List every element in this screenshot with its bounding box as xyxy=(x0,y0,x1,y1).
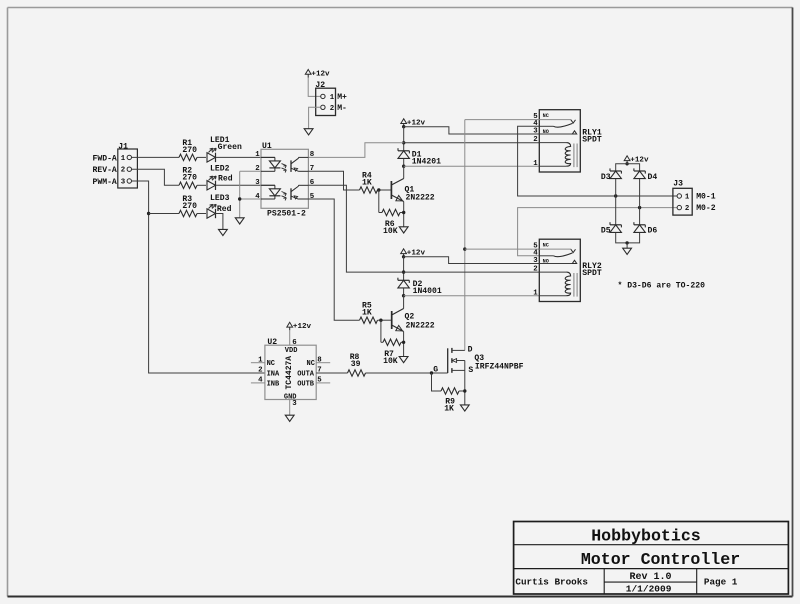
junction NC rail / RLY2 pin5 xyxy=(463,247,466,250)
svg-text:1/1/2009: 1/1/2009 xyxy=(626,584,672,595)
wire +12v to RLY2 pin3 NO xyxy=(404,257,540,264)
diode D5 xyxy=(610,224,621,226)
junction motor line2 / D4-D6 xyxy=(638,206,641,209)
svg-text:10K: 10K xyxy=(383,357,398,366)
U1 channel2 LED xyxy=(261,184,275,186)
wire motor line1 down to D5 xyxy=(615,196,617,225)
svg-text:7: 7 xyxy=(310,165,314,173)
ground J2 xyxy=(304,129,313,135)
svg-text:+12v: +12v xyxy=(311,70,330,78)
resistor R2 270 xyxy=(179,182,197,188)
svg-text:2: 2 xyxy=(533,266,537,274)
svg-text:J3: J3 xyxy=(673,180,683,189)
RLY2 coil xyxy=(539,271,566,273)
transistor Q2 2N2222 xyxy=(403,296,405,309)
connector J1 xyxy=(118,149,138,188)
svg-text:+12v: +12v xyxy=(293,323,312,331)
title block row line 1 xyxy=(514,544,789,546)
junction bridge ground xyxy=(625,241,628,244)
svg-text:4: 4 xyxy=(255,193,260,201)
wire to RLY2 pin5 xyxy=(465,248,540,250)
wire RLY2 pin4 common to motor line2 xyxy=(518,208,640,256)
svg-text:J2: J2 xyxy=(315,81,325,90)
junction +12v RLY2 xyxy=(402,255,405,258)
svg-text:3: 3 xyxy=(121,179,126,187)
power +12v D2/RLY2 xyxy=(401,249,407,254)
svg-text:LED3: LED3 xyxy=(210,194,230,203)
U1 channel2 phototransistor xyxy=(290,188,292,200)
svg-text:NC: NC xyxy=(543,243,549,249)
svg-text:39: 39 xyxy=(351,360,361,369)
svg-text:6: 6 xyxy=(310,179,315,187)
U1 channel1 coupling arrows xyxy=(282,164,287,166)
svg-text:TC4427A: TC4427A xyxy=(285,356,294,390)
svg-text:1K: 1K xyxy=(362,178,372,187)
connector J3 xyxy=(673,188,692,215)
power +12v J2 xyxy=(305,70,311,75)
ground Q1 emitter xyxy=(399,227,408,233)
ground Q2 emitter xyxy=(399,357,408,363)
wire +12v to RLY1 pin3 NO xyxy=(404,127,540,134)
wire J1 pin2 to R2 xyxy=(132,169,179,185)
junction Q1 emitter / R6 xyxy=(402,211,405,214)
wire R7 branch xyxy=(380,320,382,342)
svg-text:NO: NO xyxy=(543,258,549,264)
svg-text:OUTA: OUTA xyxy=(297,370,315,378)
wire R9 branch xyxy=(432,373,442,391)
svg-text:Motor Controller: Motor Controller xyxy=(581,550,740,569)
wire U1 pin5 to R5 xyxy=(308,199,359,320)
resistor R4 1K xyxy=(360,187,378,193)
svg-text:D6: D6 xyxy=(648,227,658,236)
svg-text:3: 3 xyxy=(255,179,260,187)
wire R8 to Q3 gate xyxy=(366,372,448,374)
U2 pin4 INB stub xyxy=(251,382,265,384)
wire D2 to collector node xyxy=(403,288,405,295)
junction bridge +12v xyxy=(625,162,628,165)
ground Q3 source xyxy=(460,405,469,411)
wire +12v to U2 VDD pin6 xyxy=(289,330,291,345)
wire U1 pin8 to +12v xyxy=(308,143,403,158)
svg-text:D5: D5 xyxy=(601,227,611,236)
LED3 Red xyxy=(207,209,216,218)
junction Q2 emitter / R7 xyxy=(402,341,405,344)
U1 channel2 coupling arrows xyxy=(282,192,287,194)
svg-text:FWD-A: FWD-A xyxy=(93,154,117,163)
wire J1 pin1 to R1 xyxy=(132,156,179,158)
relay RLY1 SPDT xyxy=(539,110,580,172)
svg-text:PS2501-2: PS2501-2 xyxy=(267,210,306,219)
wire U1 pin7 to R4 xyxy=(308,171,359,190)
svg-text:1K: 1K xyxy=(362,309,372,318)
wire R1 to LED1 xyxy=(197,156,206,158)
wire D1 to collector node xyxy=(403,159,405,166)
svg-text:10K: 10K xyxy=(383,227,398,236)
connector J2 xyxy=(316,88,336,115)
page border frame xyxy=(8,7,793,9)
ground U1 LED cathodes xyxy=(235,218,244,224)
svg-text:M0-1: M0-1 xyxy=(696,193,716,202)
svg-text:Green: Green xyxy=(218,143,242,152)
resistor R7 10K xyxy=(383,339,401,345)
wire U1 pin6 to +12v node xyxy=(308,185,403,272)
RLY1 common lever xyxy=(539,125,553,127)
svg-text:J1: J1 xyxy=(118,142,128,151)
resistor R6 10K xyxy=(382,209,400,215)
wire R5 to Q2 base xyxy=(378,319,392,321)
junction +12v / U1 pin6 / RLY2 coil xyxy=(402,270,405,273)
resistor R3 270 xyxy=(179,210,197,216)
svg-text:1N4001: 1N4001 xyxy=(413,287,442,296)
wire Q2 emitter down xyxy=(403,332,405,357)
U1 channel1 LED xyxy=(261,156,275,158)
wire D3 to motor line1 xyxy=(615,179,617,196)
wire U2 OUTA to R8 xyxy=(316,372,347,374)
svg-text:1: 1 xyxy=(330,94,335,102)
svg-text:M0-2: M0-2 xyxy=(696,204,716,213)
junction U1 pin4 gnd xyxy=(238,197,241,200)
svg-text:INB: INB xyxy=(267,380,280,388)
svg-text:NO: NO xyxy=(543,129,549,135)
svg-text:3: 3 xyxy=(533,257,538,265)
svg-text:* D3-D6 are TO-220: * D3-D6 are TO-220 xyxy=(618,281,706,290)
wire LED1 to U1 pin1 xyxy=(216,156,275,158)
diode D3 xyxy=(610,170,621,172)
svg-text:NC: NC xyxy=(307,360,315,368)
wire bridge top rail xyxy=(616,164,640,171)
U1 channel1 phototransistor xyxy=(290,160,292,172)
gate driver U2 TC4427A xyxy=(265,345,316,399)
svg-text:INA: INA xyxy=(267,370,280,378)
svg-text:1: 1 xyxy=(533,289,538,297)
svg-text:Page 1: Page 1 xyxy=(704,576,738,587)
power +12v D1/RLY1 xyxy=(401,119,407,124)
svg-text:S: S xyxy=(468,366,473,375)
svg-text:2: 2 xyxy=(533,136,537,144)
svg-text:VDD: VDD xyxy=(285,347,298,355)
svg-text:1: 1 xyxy=(533,160,538,168)
wire +12v down to D2 xyxy=(403,257,405,281)
diode D1 1N4201 xyxy=(398,150,409,152)
junction Q2 base / R7 xyxy=(379,319,382,322)
svg-text:Curtis Brooks: Curtis Brooks xyxy=(515,576,588,587)
ground LED3 xyxy=(219,229,228,235)
svg-text:1: 1 xyxy=(255,151,260,159)
ground bridge xyxy=(623,248,632,254)
wire +12v to J2 pin1 xyxy=(308,78,321,97)
wire D4 to motor line2 xyxy=(639,179,641,208)
svg-text:U2: U2 xyxy=(267,338,277,347)
svg-text:Red: Red xyxy=(218,174,233,183)
wire LED3 to ground xyxy=(216,214,223,230)
svg-text:D3: D3 xyxy=(601,173,611,182)
svg-text:G: G xyxy=(433,365,438,374)
U2 pin5 OUTB stub xyxy=(316,382,330,384)
wire +12v to RLY1 pin2 coil xyxy=(404,142,540,144)
svg-text:OUTB: OUTB xyxy=(297,380,315,388)
diode D6 xyxy=(634,224,645,226)
svg-text:LED2: LED2 xyxy=(210,165,230,174)
svg-text:270: 270 xyxy=(182,146,197,155)
svg-text:2: 2 xyxy=(258,367,262,375)
svg-text:1: 1 xyxy=(121,155,126,163)
title block divider right xyxy=(696,569,698,594)
wire R6 branch xyxy=(378,190,380,213)
svg-text:SPDT: SPDT xyxy=(582,269,602,278)
svg-text:PWM-A: PWM-A xyxy=(93,178,117,187)
junction D1 / RLY1 pin1 / Q1 collector xyxy=(402,165,405,168)
RLY1 coil xyxy=(539,142,566,144)
RLY2 NC contact xyxy=(539,248,571,250)
title block divider left xyxy=(603,569,605,594)
svg-text:3: 3 xyxy=(533,128,538,136)
junction +12v top xyxy=(402,125,405,128)
svg-text:2: 2 xyxy=(330,105,334,113)
resistor R9 1K xyxy=(441,388,459,394)
wire node to RLY2 pin1 xyxy=(404,295,540,297)
svg-text:SPDT: SPDT xyxy=(582,136,602,145)
svg-text:M+: M+ xyxy=(337,93,347,102)
wire motor line1 to J3 pin1 xyxy=(616,195,677,197)
svg-text:IRFZ44NPBF: IRFZ44NPBF xyxy=(475,362,524,371)
svg-text:NC: NC xyxy=(267,360,275,368)
wire junction to R3 xyxy=(149,213,179,215)
power +12v bridge xyxy=(624,156,630,161)
wire +12v to RLY2 pin2 coil xyxy=(404,271,540,273)
svg-text:Rev 1.0: Rev 1.0 xyxy=(629,572,671,583)
LED1 Green xyxy=(207,153,216,162)
RLY2 common lever xyxy=(539,255,553,257)
mosfet Q3 IRFZ44NPBF xyxy=(447,348,449,373)
svg-text:M-: M- xyxy=(337,104,347,113)
wire J2 pin2 to ground xyxy=(309,107,321,128)
wire R2 to LED2 xyxy=(197,184,206,186)
wire R7 to emitter xyxy=(401,341,404,343)
wire R4 to Q1 base xyxy=(378,189,392,191)
wire node to RLY1 pin1 xyxy=(404,165,540,167)
diode D2 1N4001 xyxy=(398,279,409,281)
RLY1 NC contact xyxy=(539,119,571,121)
LED2 Red xyxy=(207,181,216,190)
junction D2 / RLY2 pin1 / Q2 collector xyxy=(402,294,405,297)
U2 pin8 NC stub xyxy=(316,362,330,364)
svg-text:Red: Red xyxy=(217,205,232,214)
wire motor line2 to J3 pin2 xyxy=(640,207,678,209)
wire LED2 to U1 pin3 xyxy=(216,184,275,186)
svg-text:2N2222: 2N2222 xyxy=(406,321,435,330)
wire RLY1 pin4 common to motor line1 xyxy=(518,126,616,196)
U2 pin1 NC stub xyxy=(251,362,265,364)
svg-text:3: 3 xyxy=(292,400,297,408)
title block mid split line xyxy=(604,581,697,583)
wire motor line2 down to D6 xyxy=(639,208,641,225)
title block border xyxy=(514,522,789,595)
junction PWM/R3 xyxy=(147,212,150,215)
wire NC rail vertical to Q3 drain xyxy=(464,120,466,351)
svg-text:2: 2 xyxy=(121,167,125,175)
wire R9 to source xyxy=(459,390,465,392)
wire U2 GND pin3 to ground xyxy=(289,400,291,416)
resistor R8 39 xyxy=(348,370,366,376)
wire J1 pin3 PWM-A down to U2 INA xyxy=(132,181,265,373)
svg-text:2: 2 xyxy=(255,165,259,173)
wire R6 to emitter xyxy=(400,212,404,214)
diode D4 xyxy=(634,170,645,172)
junction source / R9 xyxy=(463,389,466,392)
svg-text:1K: 1K xyxy=(444,405,454,414)
wire bridge bottom rail xyxy=(616,233,640,243)
optocoupler U1 PS2501-2 xyxy=(261,149,308,208)
relay RLY2 SPDT xyxy=(539,239,580,301)
wire RLY1 pin5 NC rail xyxy=(465,119,540,121)
svg-text:270: 270 xyxy=(182,202,197,211)
ground U2 xyxy=(285,415,294,421)
svg-text:2N2222: 2N2222 xyxy=(406,194,435,203)
wire R3 to LED3 xyxy=(197,213,206,215)
wire +12v down to D1 xyxy=(403,127,405,151)
svg-text:D: D xyxy=(468,346,473,355)
svg-text:1N4201: 1N4201 xyxy=(412,158,441,167)
svg-text:270: 270 xyxy=(182,174,197,183)
resistor R1 270 xyxy=(179,154,197,160)
svg-text:5: 5 xyxy=(310,193,315,201)
resistor R5 1K xyxy=(360,317,378,323)
svg-text:Hobbybotics: Hobbybotics xyxy=(591,527,701,546)
svg-text:2: 2 xyxy=(685,205,689,213)
svg-text:D4: D4 xyxy=(648,173,658,182)
svg-text:Q2: Q2 xyxy=(405,312,415,321)
power +12v U2 xyxy=(287,322,293,327)
title block row line 2 xyxy=(514,568,789,570)
junction motor line1 / D3-D5 xyxy=(614,194,617,197)
junction +12v / U1 pin8 / RLY1 coil xyxy=(402,141,405,144)
svg-text:NC: NC xyxy=(543,113,549,119)
junction gate / R9 xyxy=(430,371,433,374)
wire U1 pin2 pin4 to ground xyxy=(240,170,261,172)
junction Q1 base / R6 xyxy=(377,188,380,191)
RLY1 NO contact xyxy=(539,133,576,135)
RLY2 NO contact xyxy=(539,263,576,265)
transistor Q1 2N2222 xyxy=(403,166,405,178)
svg-text:1: 1 xyxy=(685,194,690,202)
svg-text:8: 8 xyxy=(310,151,315,159)
svg-text:U1: U1 xyxy=(262,142,272,151)
wire Q1 emitter down xyxy=(403,202,405,227)
svg-text:REV-A: REV-A xyxy=(93,166,117,175)
wire Q3 source down xyxy=(464,361,466,405)
